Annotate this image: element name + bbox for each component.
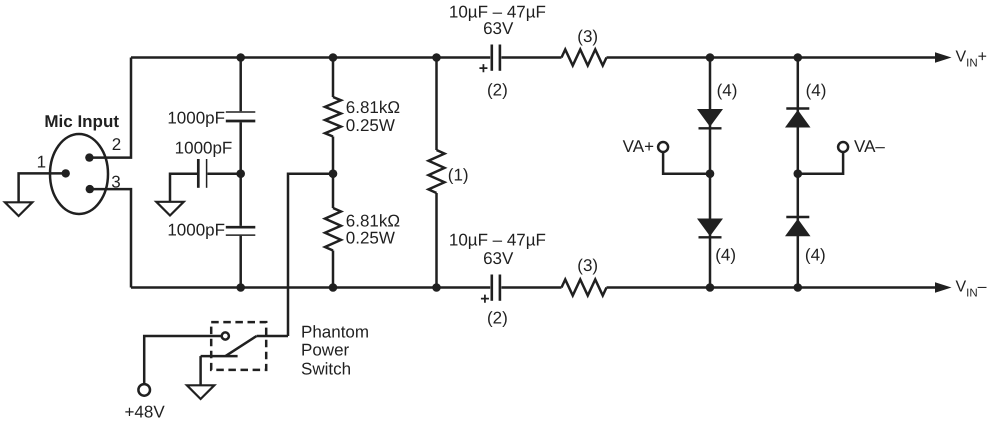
wire upper resistor to mid node xyxy=(332,137,335,174)
wire mid node to lower resistor xyxy=(332,174,335,208)
wire VA+ to diode column A xyxy=(663,152,710,174)
wire bottom rail middle segment xyxy=(501,286,561,289)
ground middle cap xyxy=(156,202,183,216)
VA+ terminal xyxy=(658,142,668,152)
wire pin1 to ground xyxy=(19,173,66,202)
pin 2 dot xyxy=(85,153,93,161)
+48V terminal xyxy=(138,384,150,396)
wire resistor column upper xyxy=(332,58,335,98)
wire bottom cap to bottom rail xyxy=(239,236,242,288)
svg-text:+: + xyxy=(480,291,489,308)
svg-text:(3): (3) xyxy=(577,27,598,46)
svg-text:0.25W: 0.25W xyxy=(346,116,395,135)
resistor 6.81k upper xyxy=(325,97,341,137)
wire throw bar to ground xyxy=(199,356,202,385)
svg-text:(4): (4) xyxy=(805,245,826,264)
svg-text:6.81kΩ: 6.81kΩ xyxy=(346,98,400,117)
svg-text:(2): (2) xyxy=(487,308,508,327)
switch input contact xyxy=(222,332,229,339)
svg-text:10µF – 47µF: 10µF – 47µF xyxy=(449,231,546,250)
capacitor 1000pF middle (to ground) xyxy=(197,159,200,188)
ground pin1 xyxy=(5,202,32,216)
wire +48V to switch contact xyxy=(144,336,221,384)
VIN+ arrowhead xyxy=(935,52,952,62)
wire mid cap right to node xyxy=(207,172,240,175)
wire lever to riser xyxy=(257,335,288,338)
capacitor (2) bottom plates xyxy=(490,275,493,301)
svg-text:VA–: VA– xyxy=(854,137,885,156)
svg-text:Switch: Switch xyxy=(301,359,351,378)
svg-text:Mic Input: Mic Input xyxy=(44,112,119,131)
pin 3 dot xyxy=(86,185,94,193)
resistor (1) xyxy=(429,150,445,193)
wire diode column A xyxy=(709,58,712,288)
svg-text:(4): (4) xyxy=(806,81,827,100)
capacitor 1000pF bottom xyxy=(226,226,256,229)
svg-text:VIN–: VIN– xyxy=(956,278,987,299)
diode (4) D2 down xyxy=(697,219,723,237)
svg-text:0.25W: 0.25W xyxy=(346,229,395,248)
diode (4) D3 up xyxy=(786,107,809,109)
svg-text:1000pF: 1000pF xyxy=(175,138,233,157)
svg-text:(2): (2) xyxy=(487,81,508,100)
node dots bottom rail xyxy=(236,283,245,292)
wire pin3 down to bottom rail xyxy=(90,189,131,287)
wire resistor (1) column upper xyxy=(435,58,438,151)
svg-text:(3): (3) xyxy=(577,256,598,275)
svg-text:63V: 63V xyxy=(483,249,514,268)
svg-text:2: 2 xyxy=(112,135,121,154)
svg-text:VIN+: VIN+ xyxy=(956,48,988,69)
svg-text:(4): (4) xyxy=(715,245,736,264)
resistor (3) bottom xyxy=(562,280,607,296)
phantom power switch box xyxy=(211,322,266,370)
wire between top cap and mid node xyxy=(239,122,242,173)
wire top rail right segment xyxy=(607,56,936,59)
wire VA- to diode column B xyxy=(798,152,843,174)
svg-text:(4): (4) xyxy=(717,81,738,100)
svg-text:VA+: VA+ xyxy=(623,137,654,156)
VIN- arrowhead xyxy=(935,282,952,292)
svg-text:Power: Power xyxy=(301,341,350,360)
switch lever xyxy=(226,336,257,356)
switch throw bar xyxy=(201,355,238,358)
svg-text:(1): (1) xyxy=(448,165,469,184)
diode (4) D1 down xyxy=(697,109,723,127)
VA- terminal xyxy=(838,142,848,152)
capacitor (2) top plates xyxy=(490,45,493,71)
wire mid cap left to ground xyxy=(170,174,197,202)
node dots top rail xyxy=(236,53,245,62)
wire pin2 up to top rail xyxy=(89,58,131,158)
wire diode column B xyxy=(797,58,800,288)
wire top rail middle segment xyxy=(501,56,561,59)
capacitor 1000pF top xyxy=(226,111,256,113)
wire top rail left segment xyxy=(131,56,490,59)
pin 1 dot xyxy=(61,169,69,177)
wire lower resistor to bottom rail xyxy=(332,251,335,288)
wire resistor (1) to bottom rail xyxy=(435,193,438,288)
XLR connector body xyxy=(50,134,108,214)
svg-text:63V: 63V xyxy=(483,19,514,38)
svg-text:+48V: +48V xyxy=(125,402,166,421)
wire mid node to phantom switch feed xyxy=(288,174,333,336)
wire cap-divider column upper xyxy=(239,58,242,112)
svg-text:1000pF: 1000pF xyxy=(167,221,225,240)
svg-text:1000pF: 1000pF xyxy=(167,108,225,127)
resistor (3) top xyxy=(562,50,607,66)
node dots middle xyxy=(236,169,245,178)
svg-text:1: 1 xyxy=(37,153,46,172)
resistor 6.81k lower xyxy=(325,208,341,251)
wire bottom rail right segment xyxy=(607,286,936,289)
svg-text:Phantom: Phantom xyxy=(301,322,369,341)
svg-text:3: 3 xyxy=(111,172,120,191)
wire bottom rail left segment xyxy=(131,286,490,289)
ground switch xyxy=(187,385,214,399)
svg-text:+: + xyxy=(479,60,488,77)
diode (4) D4 up xyxy=(786,216,809,218)
wire mid node to bottom cap xyxy=(239,174,242,226)
